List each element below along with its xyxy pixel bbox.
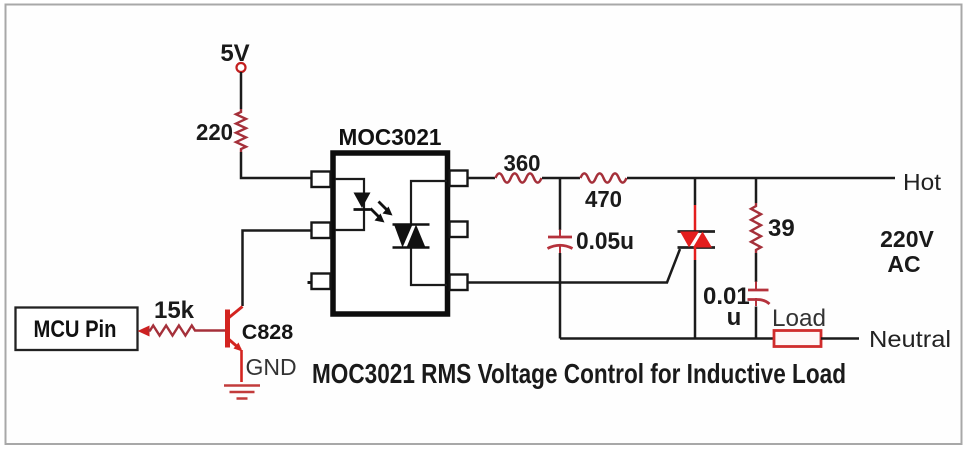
- LED D1: [354, 193, 371, 210]
- wire pin6 to R360: [468, 177, 495, 180]
- pin 3: [308, 274, 331, 290]
- resistor 15k: [148, 326, 197, 336]
- MCU Pin box: [16, 308, 138, 351]
- resistor 470: [581, 173, 627, 182]
- wire R39 to cap: [755, 253, 758, 282]
- wire pin2 to collector: [243, 231, 312, 307]
- label 39: [768, 215, 795, 242]
- wire triac branch lower: [694, 248, 697, 339]
- wire Hot rail: [627, 177, 895, 180]
- svg-text:MOC3021: MOC3021: [339, 124, 442, 150]
- load RL: [774, 331, 821, 347]
- svg-text:Load: Load: [772, 305, 826, 332]
- svg-text:AC: AC: [887, 251, 920, 277]
- arrowhead into MCU pin: [138, 326, 150, 337]
- resistor 220: [236, 109, 246, 152]
- label Hot: [903, 169, 942, 195]
- label GND: [245, 354, 296, 380]
- node 5V label: [220, 40, 249, 67]
- svg-text:470: 470: [585, 186, 622, 212]
- wire internal triac loop: [411, 181, 447, 285]
- label 0.05u: [576, 228, 634, 255]
- label 470: [585, 186, 622, 212]
- triac T1: [678, 232, 716, 248]
- svg-text:Neutral: Neutral: [869, 326, 951, 352]
- 5V terminal: [237, 63, 246, 72]
- label Load: [772, 305, 826, 332]
- wire R360 to R470: [542, 177, 580, 180]
- pin 6: [450, 171, 468, 187]
- resistor 360: [496, 173, 542, 182]
- svg-text:360: 360: [504, 150, 541, 176]
- resistor 39: [751, 203, 761, 253]
- svg-text:5V: 5V: [220, 40, 249, 67]
- svg-text:0.05u: 0.05u: [576, 228, 634, 255]
- wire R220 to pin1: [241, 152, 311, 178]
- wire cap to neutral: [755, 307, 758, 339]
- wire triac branch upper: [694, 178, 697, 231]
- svg-text:Hot: Hot: [903, 169, 942, 195]
- capacitor 0.05u: [548, 230, 573, 254]
- wire 5V to R220: [240, 72, 243, 109]
- op-coupler U1 MOC3021 body: [333, 153, 448, 314]
- svg-text:C828: C828: [242, 320, 293, 344]
- svg-text:15k: 15k: [154, 297, 195, 324]
- label Neutral: [869, 326, 951, 352]
- svg-text:MCU Pin: MCU Pin: [34, 316, 117, 343]
- caption: [312, 358, 846, 389]
- label 15k: [154, 297, 195, 324]
- label MOC3021: [339, 124, 442, 150]
- light arrows: [371, 202, 393, 223]
- svg-text:220: 220: [196, 119, 233, 145]
- label 0.01 u: [703, 283, 750, 331]
- label C828: [242, 320, 293, 344]
- pin 1: [312, 172, 331, 188]
- label 220V AC: [880, 226, 934, 277]
- svg-text:220V: 220V: [880, 226, 934, 252]
- wire load to neutral label: [821, 337, 859, 340]
- wire 39 branch upper: [755, 178, 758, 203]
- wire 15k to base: [197, 329, 225, 331]
- ground: [224, 386, 260, 399]
- pin 2: [312, 223, 331, 239]
- wire LED loop: [335, 179, 364, 230]
- wire neutral rail: [560, 337, 774, 340]
- capacitor 0.01u: [748, 282, 770, 307]
- svg-text:MOC3021 RMS Voltage Control fo: MOC3021 RMS Voltage Control for Inductiv…: [312, 358, 846, 389]
- label 220: [196, 119, 233, 145]
- label 360: [504, 150, 541, 176]
- wire gate from pin4: [468, 249, 680, 283]
- svg-text:39: 39: [768, 215, 795, 242]
- pin 4: [450, 275, 468, 291]
- wire snubber drop lower: [559, 253, 562, 339]
- svg-text:u: u: [727, 304, 742, 331]
- wire snubber drop upper: [559, 178, 562, 230]
- svg-text:GND: GND: [245, 354, 296, 380]
- pin 5: [450, 222, 468, 238]
- internal triac: [393, 225, 430, 248]
- transistor Q1 C828: [225, 307, 243, 383]
